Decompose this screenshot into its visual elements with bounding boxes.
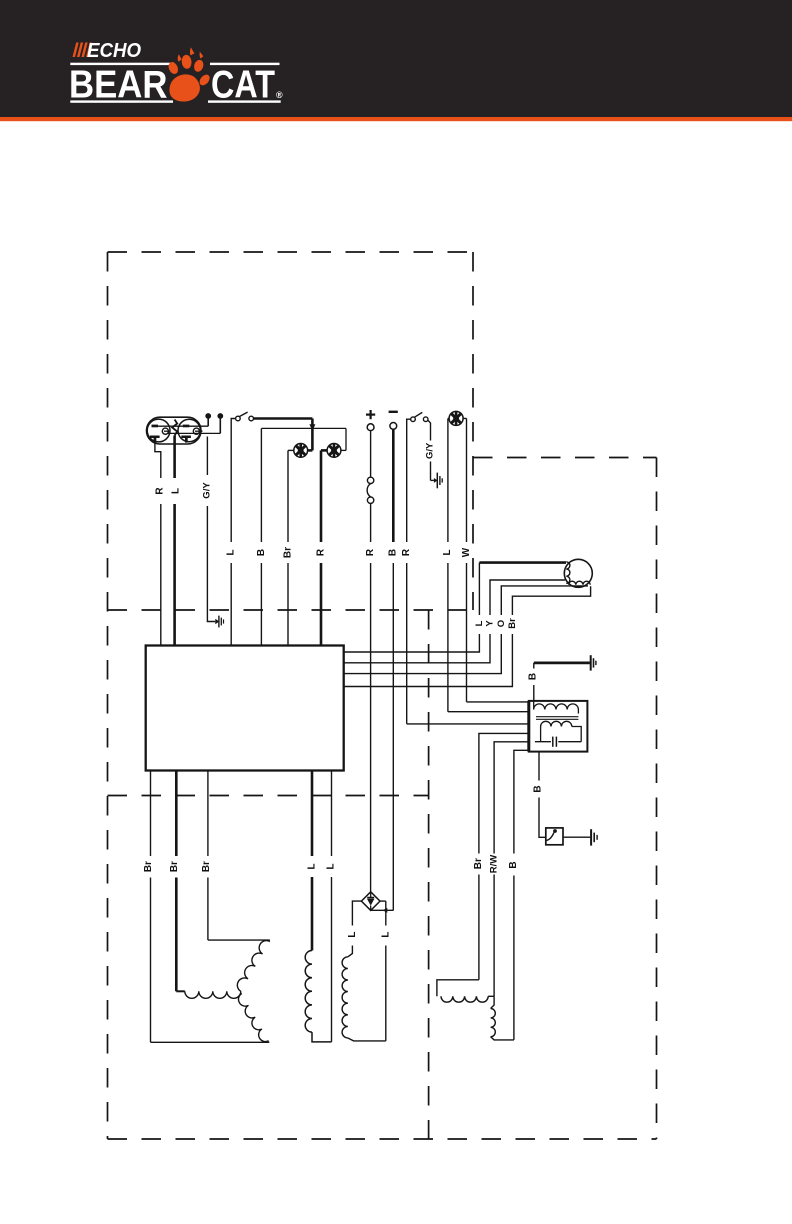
svg-text:L: L (347, 932, 358, 938)
svg-text:Br: Br (169, 861, 180, 872)
svg-text:W: W (461, 547, 472, 557)
svg-text:®: ® (276, 90, 283, 100)
svg-text:Br: Br (143, 861, 154, 872)
svg-text:B: B (388, 549, 399, 556)
svg-text:R: R (315, 548, 326, 556)
svg-text:L: L (170, 488, 181, 494)
svg-text:L: L (380, 932, 391, 938)
svg-text:Y: Y (485, 620, 496, 627)
svg-text:B: B (532, 785, 543, 792)
svg-text:Br: Br (473, 858, 484, 869)
svg-text:L: L (307, 863, 318, 869)
svg-text:B: B (256, 549, 267, 556)
svg-text:R: R (154, 487, 165, 495)
svg-text:R: R (365, 548, 376, 556)
svg-text:B: B (528, 673, 539, 680)
svg-text:Br: Br (201, 861, 212, 872)
svg-text:L: L (226, 549, 237, 555)
svg-text:G/Y: G/Y (424, 442, 435, 459)
svg-text:G/Y: G/Y (201, 482, 212, 499)
svg-text:R/W: R/W (488, 855, 499, 874)
svg-text:R: R (401, 548, 412, 556)
svg-text:BEAR: BEAR (69, 63, 168, 106)
svg-text:L: L (474, 620, 485, 626)
svg-text:Br: Br (507, 618, 518, 629)
svg-text:ECHO: ECHO (87, 40, 141, 62)
svg-text:B: B (508, 861, 519, 868)
svg-text:L: L (326, 863, 337, 869)
svg-text:O: O (496, 620, 507, 627)
svg-text:L: L (442, 549, 453, 555)
svg-text:Br: Br (282, 547, 293, 558)
svg-text:CAT: CAT (211, 63, 275, 106)
